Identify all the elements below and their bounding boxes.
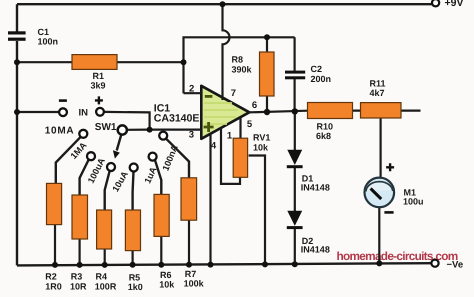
svg-text:R2: R2 [45,272,57,282]
meter M1 [365,163,395,212]
SW1 wiper pivot [118,125,127,134]
wire C2 branch [294,37,296,111]
svg-text:R11: R11 [370,79,386,89]
svg-text:10k: 10k [253,142,269,152]
svg-text:3: 3 [189,130,194,141]
svg-text:R7: R7 [185,269,197,279]
wire feedback vertical to pin2 [184,37,295,93]
resistor R5 [125,210,140,251]
wire 1uA contact to R6 [155,160,161,195]
svg-text:RV1: RV1 [253,132,270,142]
svg-text:2: 2 [189,83,194,94]
wire pin1 to RV1 bottom [221,129,240,184]
svg-text:4: 4 [211,140,217,151]
wire R8 stubs [266,37,268,112]
svg-text:3k9: 3k9 [91,80,106,90]
resistor R3 [72,195,88,239]
svg-text:10k: 10k [159,279,175,289]
resistor R6 [154,194,169,236]
svg-text:100n: 100n [38,36,59,46]
svg-text:SW1: SW1 [95,122,117,133]
junction R5 / rail [130,262,136,268]
wire R11 to meter [380,118,382,178]
contact 1MA [87,152,95,160]
junction meter / rail [376,260,382,266]
contact 10MA [79,130,87,138]
junction D2 / rail [292,261,298,267]
wire 10MA contact to R2 [56,137,81,183]
svg-text:R5: R5 [129,273,141,283]
wire bottom rail [17,263,434,265]
junction R3 / rail [77,262,83,268]
wire 1MA contact to R3 [80,159,89,195]
junction +9V rail / pin7 [220,1,226,7]
svg-text:C2: C2 [311,64,323,74]
svg-text:100u: 100u [403,197,424,207]
svg-text:R4: R4 [96,272,108,282]
svg-text:IN: IN [79,107,89,118]
wire pin7 supply with hop [223,4,230,100]
svg-text:R8: R8 [232,54,244,64]
wire diode chain [294,111,296,264]
capacitor C1 plates [8,31,26,34]
resistor R7 [181,178,197,220]
wire R2 bottom stub [54,225,56,266]
svg-text:6: 6 [252,100,257,111]
wire R3 bottom stub [78,239,80,265]
junction IN- node [14,109,20,115]
junction R8 top node [264,34,270,40]
wire node to pin3 [150,129,202,131]
capacitor C2 plates [285,71,305,74]
wire R1 left [17,61,72,63]
diode D2 [287,211,302,226]
wire RV1 wiper to rail [249,156,265,265]
wire IN minus [17,111,59,113]
svg-text:4k7: 4k7 [370,88,385,98]
svg-text:+9V: +9V [445,0,464,9]
contact 1uA [149,153,157,161]
svg-text:100R: 100R [95,281,117,291]
junction RV1 wiper / rail [262,261,268,267]
terminal IN minus [59,108,67,116]
contact 100nA [159,132,167,140]
svg-text:R3: R3 [71,272,83,282]
wire 10uA contact to R5 [131,172,134,210]
junction R7 / rail [186,262,192,268]
resistor R2 [47,183,62,224]
wire 100nA contact to R7 [166,139,189,178]
wire wiper stub [127,129,150,131]
junction R4 / rail [102,262,108,268]
resistor R10 [308,103,353,119]
svg-text:−Ve: −Ve [447,260,464,271]
SW1 wiper arm with arrowhead [117,135,122,151]
resistor R1 [72,55,117,70]
svg-text:10R: 10R [70,281,87,291]
svg-text:R10: R10 [317,121,334,131]
svg-text:1k0: 1k0 [128,282,143,292]
svg-text:100k: 100k [184,279,205,289]
junction R8 bottom / output [264,109,270,115]
resistor R11 [361,103,402,118]
svg-text:1: 1 [227,130,233,141]
label plus IN [95,96,103,104]
svg-text:homemade-circuits.com: homemade-circuits.com [337,249,458,263]
contact 100uA [107,163,115,171]
junction pin4 / rail [208,262,214,268]
wire pin4 to rail [209,134,211,265]
junction C2/D1 / output [292,108,298,114]
junction C1/R1 node [14,59,20,65]
wire R1 right [117,61,184,63]
resistor R4 [97,210,112,249]
wire R4 bottom stub [104,249,106,265]
svg-text:5: 5 [247,119,253,130]
junction pin3 node [147,127,153,133]
label minus IN [59,99,67,102]
svg-text:IN4148: IN4148 [301,245,330,255]
op-amp IC1 CA3140E [201,86,249,139]
wire IN plus to node [104,112,150,130]
svg-text:6k8: 6k8 [316,131,331,141]
contact 10uA [130,164,138,172]
terminal -Ve [431,260,438,267]
svg-text:390k: 390k [232,64,253,74]
wire R6 bottom stub [160,236,162,264]
wire R7 bottom stub [188,220,190,265]
wire meter to rail [378,207,380,263]
svg-text:7: 7 [231,88,236,99]
junction R6 / rail [158,262,164,268]
wire left vertical [16,4,18,265]
svg-text:10MA: 10MA [45,126,74,137]
wire top rail +9V [17,3,432,5]
wire R5 bottom stub [132,251,134,266]
junction R2 / rail [52,262,58,268]
resistor R8 [260,52,275,96]
wire op-amp output [248,111,421,113]
svg-text:IN4148: IN4148 [301,183,330,193]
svg-text:1R0: 1R0 [45,281,62,291]
svg-text:200n: 200n [311,74,332,84]
junction R1/feedback node [181,59,187,65]
potentiometer RV1 [233,138,247,177]
wire 100uA contact to R4 [105,171,110,210]
terminal +9V [432,0,439,6]
wire pin5 to RV1 [239,118,241,139]
terminal IN plus [96,108,104,116]
svg-text:CA3140E: CA3140E [154,112,200,124]
diode D1 [287,150,302,165]
